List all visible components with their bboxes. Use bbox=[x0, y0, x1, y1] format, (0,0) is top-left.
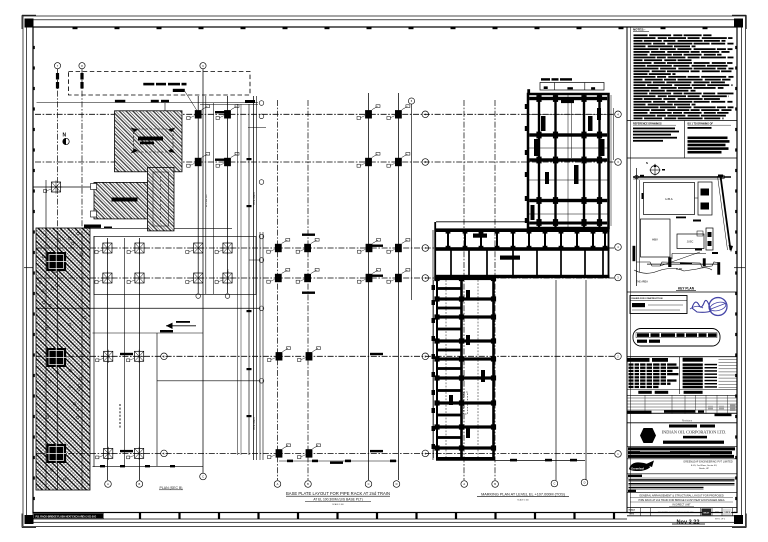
wing top beam bbox=[436, 228, 610, 232]
tower internal walls bbox=[529, 95, 608, 227]
svg-text:SHT 1 OF 2: SHT 1 OF 2 bbox=[715, 519, 725, 521]
horizontal grid line row C bbox=[36, 247, 614, 249]
grid bubbles column x425 bbox=[422, 111, 429, 118]
dimension line y102.5 bbox=[37, 102, 259, 104]
short grid line y381 bbox=[157, 380, 259, 382]
marking plan tower cap bbox=[527, 83, 604, 95]
title block bottom strip bbox=[627, 508, 737, 516]
short line y260 bbox=[249, 259, 259, 261]
svg-text:P.B. RACK-BRIDGE FLUSH HEAT EX: P.B. RACK-BRIDGE FLUSH HEAT EXCH AREA 2-… bbox=[36, 515, 97, 518]
ladder internal marks bbox=[449, 290, 485, 438]
vertical grid line x368.5 bbox=[368, 93, 370, 480]
wing cell dividers bbox=[446, 229, 609, 277]
svg-text:BASE PLATE LAYOUT FOR PIPE RAC: BASE PLATE LAYOUT FOR PIPE RACK AT 2nd T… bbox=[286, 491, 390, 496]
issued for construction stamp box bbox=[630, 296, 687, 314]
parallel line y104.6 bbox=[200, 104, 258, 106]
svg-text:A: A bbox=[277, 482, 279, 486]
project description rows bbox=[627, 474, 737, 492]
vertical lines x205.8 x213.5 bbox=[205, 96, 207, 294]
svg-text:MARKING PLAN AT LEVEL EL +10: MARKING PLAN AT LEVEL EL +107.000M (TOS) bbox=[481, 493, 566, 497]
svg-text:BLDG: BLDG bbox=[676, 269, 682, 271]
key plan small buildings right bbox=[693, 182, 712, 222]
vertical lines x237.5 x241 bbox=[237, 104, 239, 455]
small column marks below top bubbles bbox=[56, 73, 84, 89]
svg-text:E-45, 2nd Floor, Sector 63,: E-45, 2nd Floor, Sector 63, bbox=[691, 464, 718, 467]
columns row F bbox=[268, 444, 291, 459]
ladder structure rails bbox=[437, 277, 494, 460]
svg-text:NTS: NTS bbox=[630, 514, 635, 516]
vertical grid line x277.5 bbox=[277, 100, 279, 480]
title block panel divider bbox=[626, 27, 628, 513]
svg-text:N: N bbox=[646, 161, 648, 165]
vertical grid line x398.4 bbox=[397, 93, 399, 480]
key plan diagonal road bbox=[718, 176, 734, 252]
base plate layout title bbox=[286, 491, 390, 506]
marking plan tower outline bbox=[528, 94, 609, 228]
svg-text:H.B.A: H.B.A bbox=[665, 197, 672, 201]
svg-text:B: B bbox=[307, 482, 309, 486]
svg-text:EL +100.300: EL +100.300 bbox=[206, 194, 208, 207]
svg-text:N: N bbox=[63, 133, 67, 139]
vertical grid line x495 bbox=[494, 100, 496, 480]
reference two-column box bbox=[627, 121, 737, 159]
tower outer dotted lines bbox=[525, 95, 614, 226]
grid bubbles column x618 bbox=[615, 111, 622, 118]
svg-text:PLAN (SEC B): PLAN (SEC B) bbox=[160, 486, 183, 490]
svg-text:A: A bbox=[463, 482, 465, 486]
short grid line left y187 bbox=[33, 186, 97, 188]
svg-text:JUSC: JUSC bbox=[687, 241, 694, 244]
key plan north compass bbox=[646, 161, 665, 176]
vertical line x411.5 bbox=[411, 104, 413, 300]
blue company seal bbox=[709, 298, 727, 316]
svg-text:1 OF 2: 1 OF 2 bbox=[724, 512, 730, 514]
existing pipe rack dashed outline bbox=[69, 72, 251, 112]
signature smudge block bbox=[627, 446, 737, 458]
grid bubbles mid x164 bbox=[161, 353, 168, 360]
svg-text:KEY PLAN: KEY PLAN bbox=[678, 287, 695, 291]
vertical grid line x203 full height bbox=[202, 69, 204, 473]
vertical grid line x308 bbox=[307, 100, 309, 480]
svg-text:Revisions: Revisions bbox=[682, 420, 693, 422]
hatched equipment block lower bbox=[91, 182, 150, 219]
vertical grid lines through strip bbox=[57, 232, 59, 490]
wing outline bbox=[435, 222, 609, 280]
columns row D open bbox=[95, 271, 114, 284]
svg-text:PIPE RACK: PIPE RACK bbox=[253, 192, 256, 205]
svg-text:PIPE RACK: PIPE RACK bbox=[253, 417, 256, 430]
Indian Oil logo bbox=[640, 428, 656, 443]
column pedestal blocks in strip bbox=[47, 252, 67, 271]
small bubbles below x198 x228 bbox=[196, 294, 201, 299]
base plate columns row A bbox=[187, 105, 210, 120]
key plan box bbox=[627, 291, 737, 293]
small tick labels on grid lines bbox=[370, 353, 383, 355]
svg-text:SH-07: SH-07 bbox=[703, 512, 710, 514]
columns row C open bbox=[95, 241, 114, 254]
base plate group outline mid bbox=[94, 237, 397, 463]
wing mid beam row C bbox=[436, 247, 610, 251]
svg-text:C: C bbox=[553, 482, 555, 486]
svg-text:INDIAN OIL CORPORATION LTD.: INDIAN OIL CORPORATION LTD. bbox=[662, 429, 727, 434]
svg-text:PIPE RACK AT 2nd TRAIN FOR BRI: PIPE RACK AT 2nd TRAIN FOR BRIDGE FLUSH … bbox=[638, 499, 724, 502]
horizontal grid line row D bbox=[36, 277, 614, 279]
key plan top road line bbox=[633, 168, 731, 286]
svg-text:GREENLEAF ENGINEERING PVT LIMI: GREENLEAF ENGINEERING PVT LIMITED bbox=[683, 461, 733, 464]
svg-text:A: A bbox=[107, 482, 109, 486]
flow direction arrow bbox=[166, 321, 196, 329]
vertical grid line x107.5 bbox=[107, 238, 109, 480]
base plate group outline left lower bbox=[93, 333, 204, 467]
corner mark bottom-right bbox=[732, 514, 746, 528]
vertical grid lines x198 x227.5 bbox=[197, 96, 199, 293]
key plan building JUSC bbox=[672, 228, 718, 259]
vertical line x124.7 bbox=[124, 238, 126, 466]
date annotation below title block bbox=[672, 519, 725, 526]
stub line y127.5 bbox=[248, 127, 266, 129]
key plan building H.B.A bbox=[642, 183, 695, 219]
svg-text:SCALE: SCALE bbox=[629, 509, 636, 512]
svg-text:D: D bbox=[396, 482, 398, 486]
Greenleaf engineering block bbox=[627, 459, 737, 471]
svg-text:D: D bbox=[584, 481, 586, 485]
base plate columns row B bbox=[187, 153, 210, 168]
vertical line x165 bbox=[164, 103, 166, 167]
hatched strip left bbox=[36, 228, 90, 490]
notes block bbox=[633, 28, 734, 120]
small bubbles x262 bbox=[259, 101, 264, 106]
svg-text:SCALE 1:100: SCALE 1:100 bbox=[517, 499, 528, 502]
vertical grid line x464 bbox=[463, 100, 465, 480]
horizontal grid line row A bbox=[35, 113, 614, 115]
svg-text:AT EL 100.300M (U/S BASE PLT): AT EL 100.300M (U/S BASE PLT) bbox=[313, 498, 362, 502]
svg-text:Greenleaf: Greenleaf bbox=[631, 466, 644, 470]
vertical line x433 bbox=[432, 230, 434, 460]
hatched vertical band bbox=[148, 167, 175, 231]
columns row C filled bbox=[267, 239, 290, 254]
vertical line x157 bbox=[156, 333, 158, 466]
horizontal line y308 bbox=[36, 307, 259, 309]
bottom ruler strip bbox=[33, 513, 737, 520]
hatched equipment block upper bbox=[115, 111, 183, 172]
svg-text:NOTES:-: NOTES:- bbox=[633, 28, 645, 32]
corner mark top-left bbox=[22, 15, 36, 29]
drawing title rows bbox=[627, 493, 737, 507]
pipe rack edge double lines bbox=[254, 96, 264, 460]
vertical line x94 bbox=[93, 236, 95, 467]
columns row E bbox=[268, 347, 291, 362]
tick marks on line x249 bbox=[247, 158, 252, 160]
grid bubbles top bbox=[54, 63, 60, 69]
lower revision grid bbox=[627, 395, 738, 423]
corner mark bottom-left bbox=[22, 514, 36, 528]
svg-text:C: C bbox=[368, 482, 370, 486]
horizontal grid line row B bbox=[35, 161, 614, 163]
dashed segment x120 bbox=[119, 404, 121, 428]
svg-text:SCALE 1:100: SCALE 1:100 bbox=[332, 503, 343, 506]
svg-text:B: B bbox=[139, 482, 141, 486]
corner mark top-right bbox=[732, 15, 746, 29]
vertical grid line x139.5 bbox=[139, 238, 141, 480]
short line y228 with EL label bbox=[84, 225, 232, 229]
north arrow symbol bbox=[63, 133, 70, 145]
svg-text:HBV: HBV bbox=[652, 238, 658, 242]
grid bubbles bottom row bbox=[105, 481, 112, 488]
note text above building bbox=[541, 78, 572, 80]
ruler strip drawing label text bbox=[34, 513, 104, 519]
vertical line x249 bbox=[248, 104, 250, 455]
horizontal grid line row E bbox=[36, 355, 614, 357]
revision table bbox=[627, 357, 737, 396]
svg-text:24649/789-GLHH 55.72-C-CU-M-06: 24649/789-GLHH 55.72-C-CU-M-062 bbox=[658, 512, 694, 514]
ladder left edge ticks bbox=[432, 280, 436, 458]
Indian Oil Corporation text block bbox=[662, 425, 727, 444]
marking plan title bbox=[477, 493, 569, 502]
plan title left bbox=[159, 486, 183, 490]
vertical lines right of building bbox=[555, 280, 557, 480]
key plan building HBV bbox=[641, 219, 671, 257]
building bottom boundary bbox=[436, 459, 585, 462]
svg-text:ISSUED FOR CONSTRUCTION: ISSUED FOR CONSTRUCTION bbox=[632, 298, 663, 300]
dash labels on line y100.5 bbox=[115, 100, 125, 103]
svg-text:Nov 3 22: Nov 3 22 bbox=[676, 519, 699, 525]
horizontal grid line row F bbox=[36, 452, 614, 454]
svg-text:THE AREA: THE AREA bbox=[636, 281, 648, 284]
key plan area boundary and labels bbox=[633, 246, 721, 291]
rounded approval stamp bbox=[633, 329, 720, 347]
ladder rungs bbox=[434, 276, 496, 459]
wing lower beam row D bbox=[436, 275, 610, 278]
columns row D filled bbox=[267, 269, 290, 284]
isolated column left bbox=[44, 180, 63, 193]
svg-text:B: B bbox=[494, 482, 496, 486]
blue signature scribble bbox=[690, 300, 711, 312]
vertical grid lines left group bbox=[57, 69, 59, 232]
svg-text:C: C bbox=[202, 475, 204, 479]
svg-text:GENERAL ARRANGEMENT & STRUCTUR: GENERAL ARRANGEMENT & STRUCTURAL LAYOUT … bbox=[639, 493, 724, 497]
svg-text:Noida, UP: Noida, UP bbox=[699, 468, 710, 470]
